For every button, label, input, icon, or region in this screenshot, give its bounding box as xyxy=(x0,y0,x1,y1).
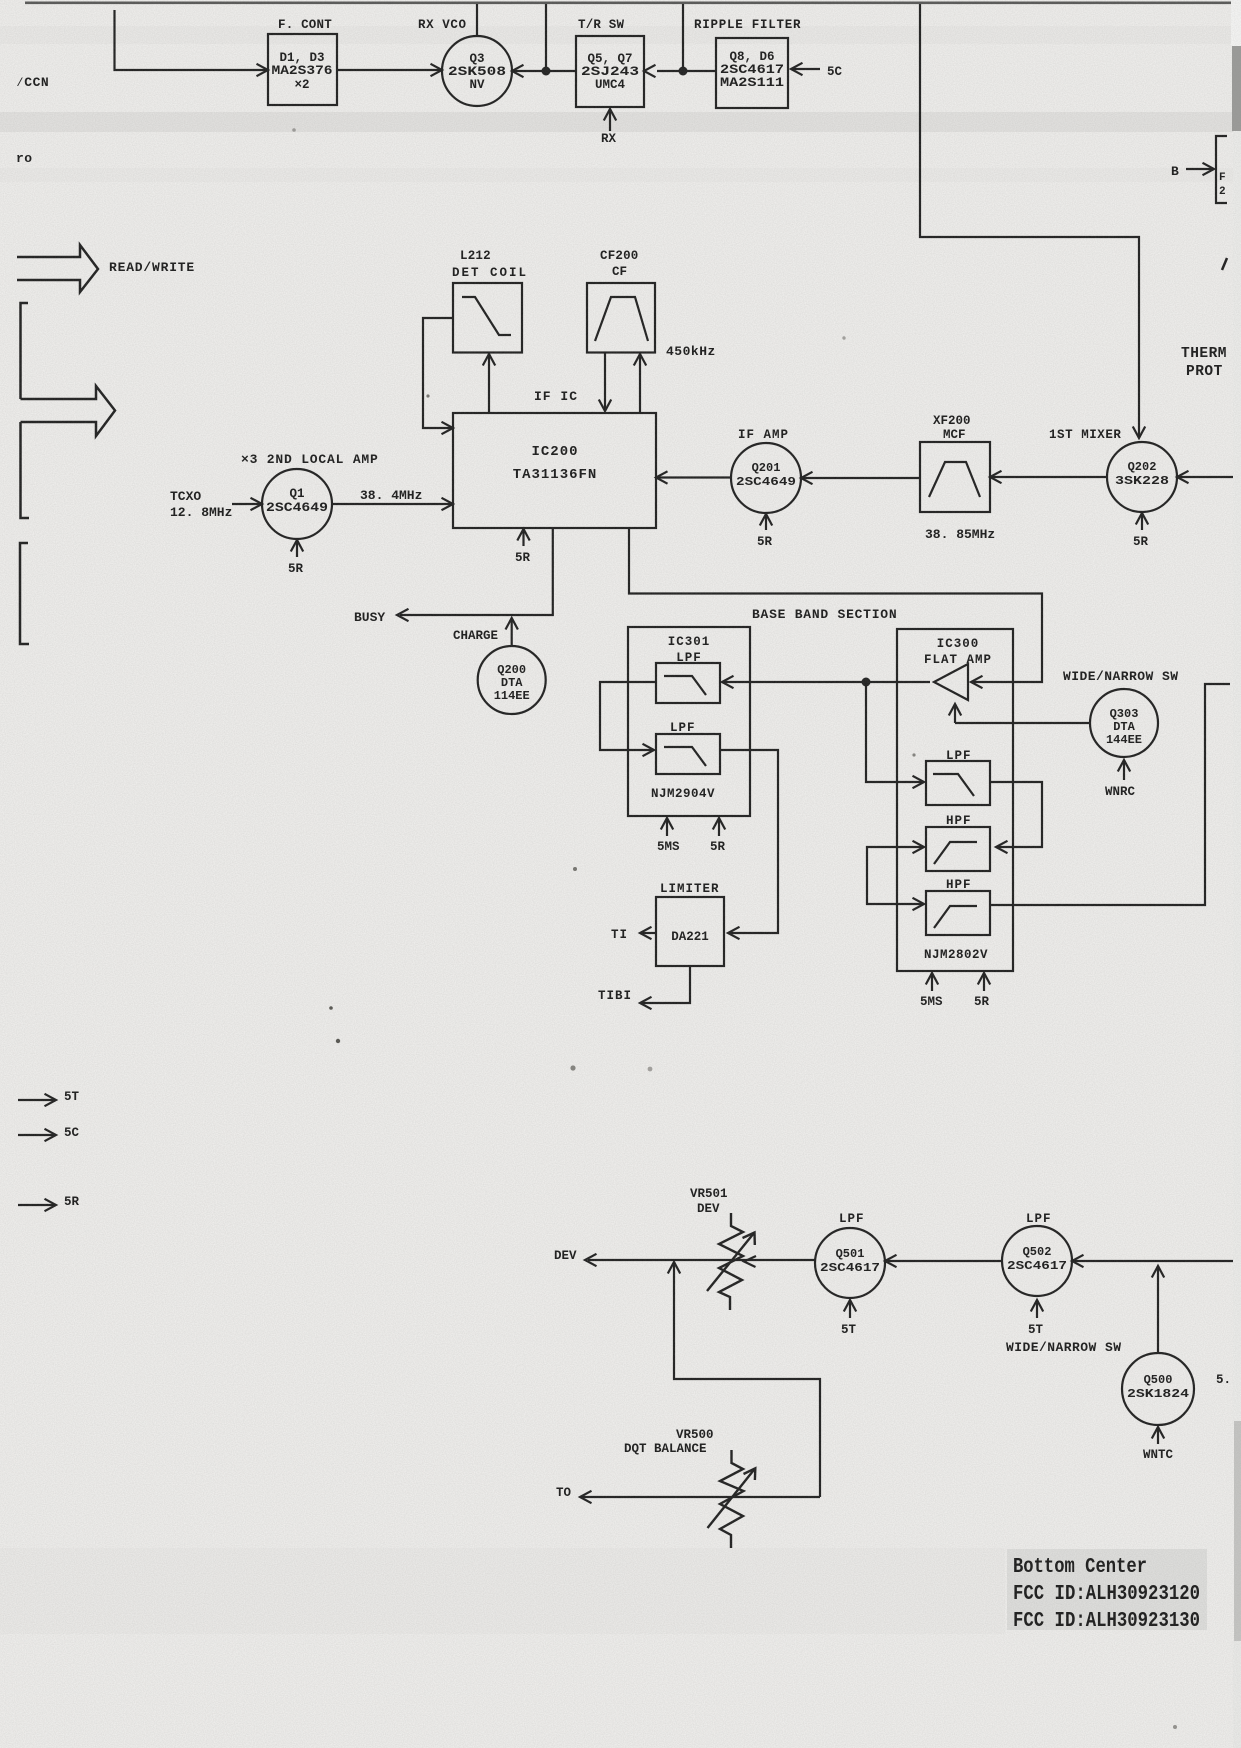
supply arrow 5T into Q501 xyxy=(849,1300,851,1318)
filter Q502 2SC4617 xyxy=(1002,1226,1072,1296)
label VR500 DQT BALANCE xyxy=(624,1428,714,1456)
mixer Q202 3SK228 xyxy=(1107,442,1177,512)
IF IC IC200 TA31136FN xyxy=(453,413,656,528)
wire from page edge into Q202 with arrow xyxy=(1177,476,1233,478)
supply arrow 5R into Q201 xyxy=(765,515,767,530)
supply arrow 5R xyxy=(18,1204,55,1206)
switch Q500 2SK1824 xyxy=(1122,1353,1194,1425)
wire 5C into ripple filter with arrow xyxy=(791,68,820,70)
switch block Q5,Q7 2SJ243 UMC4 (T/R SW) xyxy=(576,36,644,107)
wire junction down into IC300 LPF with arrow xyxy=(866,682,924,782)
op-amp triangle (flat amp) xyxy=(934,664,968,700)
supply arrow 5MS into IC301 xyxy=(666,818,668,836)
wire LPF2 output to DA221 right input xyxy=(720,750,778,933)
crystal filter XF200 box with bandpass curve xyxy=(920,442,990,512)
filter LPF box 1 (IC301) xyxy=(656,663,720,703)
wire DA221 bottom to TIBI with arrow xyxy=(640,966,690,1003)
wire IC200 bottom right to baseband section xyxy=(629,528,1042,682)
arrow DEV xyxy=(585,1254,597,1266)
arrow CF200 bottom down into IC200 top xyxy=(604,353,606,412)
arrow Q200 up to busy line xyxy=(511,619,513,646)
arrow into flat amp input xyxy=(971,676,983,688)
transistor Q200 DTA114EE xyxy=(478,646,546,714)
wire L212 left to IC200 left input with arrow xyxy=(423,318,453,428)
wire XF200 to Q201 with arrow xyxy=(801,477,920,479)
supply arrow 5MS into IC300 xyxy=(931,973,933,991)
wire stub from top edge to junction xyxy=(682,4,684,71)
arrow Q500 up into line xyxy=(1157,1266,1159,1353)
op-amp block IC301 outer box xyxy=(628,627,750,816)
wire from top edge down, right, down to Q202 xyxy=(920,4,1139,438)
filter LPF box (IC300) xyxy=(926,761,990,805)
potentiometer VR500 xyxy=(708,1450,756,1548)
supply arrow 5T xyxy=(18,1099,55,1101)
transistor Q303 DTA144EE xyxy=(1090,689,1158,757)
stray cut glyph at page edge xyxy=(1222,258,1227,270)
filter Q501 2SC4617 xyxy=(815,1228,885,1298)
detector coil L212 box with S-curve xyxy=(453,283,522,353)
connector bracket segment xyxy=(20,543,29,644)
junction dot xyxy=(542,67,551,76)
top scan bar xyxy=(25,2,1231,5)
wire T/R SW to Q3 with arrow into Q3 right xyxy=(512,70,576,72)
limiter DA221 xyxy=(656,897,724,966)
junction dot xyxy=(679,67,688,76)
label THERMAL PROT (cut at page edge) xyxy=(1181,346,1227,380)
control arrow WNTC into Q500 xyxy=(1157,1428,1159,1444)
connector bracket segment xyxy=(21,422,30,518)
supply arrow 5R into IC200 bottom xyxy=(522,530,524,546)
wire Q502 to Q501 with arrow xyxy=(885,1260,1002,1262)
wire Q201 to IC200 with arrow xyxy=(656,476,731,478)
wire HPF2 output right and up to page edge xyxy=(990,684,1230,905)
label L212 DET COIL xyxy=(452,249,528,280)
amplifier Q1 2SC4649 (2nd local amp) xyxy=(262,469,332,539)
bus arrow READ/WRITE xyxy=(17,245,98,292)
node arrow into F.CONT box xyxy=(257,64,269,76)
wire from top edge into Q3 top xyxy=(476,4,478,36)
wire Q202 to XF200 with arrow xyxy=(990,476,1107,478)
wire LPF1 left loop to LPF2 input with arrow xyxy=(600,682,656,750)
net label TCXO 12.8MHz xyxy=(170,489,232,520)
ceramic filter CF200 box with bandpass curve xyxy=(587,283,655,353)
wire IC200 bottom to BUSY (left) xyxy=(400,528,553,615)
bus arrow (unlabelled) xyxy=(21,386,116,436)
amplifier Q201 2SC4649 (IF amp) xyxy=(731,443,801,513)
wire stub from top edge to junction xyxy=(545,4,547,71)
arrow from Q303 up into flat amp xyxy=(954,704,956,723)
wire LPF output right loop into HPF1 right with arrow xyxy=(990,782,1042,847)
supply arrow 5R into Q1 xyxy=(296,541,298,557)
wire F.CONT to Q3 with arrow xyxy=(337,69,442,71)
supply arrow 5C xyxy=(18,1134,55,1136)
wire Q303 to flat amp control xyxy=(955,722,1090,724)
supply arrow 5R into IC301 xyxy=(718,818,720,836)
FCC ID label box xyxy=(1007,1549,1207,1633)
diode block D1,D3 MA2S376 x2 (F.CONT) xyxy=(268,34,337,105)
arrow up into DEV line xyxy=(668,1262,680,1274)
control arrow WNRC into Q303 xyxy=(1123,760,1125,780)
arrow into VR501 wiper xyxy=(744,1256,756,1267)
wire branch down from DEV line to DQT line xyxy=(674,1262,820,1497)
filter block Q8,D6 2SC4617 MA2S111 (RIPPLE FILTER) xyxy=(716,38,788,108)
supply arrow 5T into Q502 xyxy=(1036,1300,1038,1318)
wire VCCN input: down from top edge then right into D1,D3 xyxy=(115,10,268,70)
junction dot xyxy=(862,678,871,687)
connector bracket segment xyxy=(21,303,29,399)
wire Q1 to IC200 with arrow, 38.4MHz xyxy=(332,503,453,505)
wire DQT line to TO with arrow xyxy=(580,1496,820,1498)
wire TCXO into Q1 with arrow xyxy=(232,503,262,505)
wire DA221 to TI with arrow xyxy=(640,932,656,934)
wire RIPPLE FILTER to T/R SW with arrow xyxy=(657,70,716,72)
arrow IC200 top up into CF200 bottom xyxy=(639,354,641,413)
filter HPF box 2 (IC300) xyxy=(926,891,990,935)
wire main DEV line xyxy=(588,1259,815,1261)
wire from page edge to Q502 with arrow xyxy=(1072,1260,1233,1262)
supply arrow 5R into Q202 xyxy=(1141,514,1143,530)
label XF200 MCF xyxy=(933,414,971,442)
wire flat amp output to LPF1 with arrow xyxy=(722,681,930,683)
oscillator Q3 2SK508 NV (RX VCO) xyxy=(442,36,512,106)
wire bracket feeding HPF1 and HPF2 with arrows xyxy=(867,847,924,904)
arrow BUSY xyxy=(397,609,409,621)
control arrow RX into T/R SW bottom xyxy=(609,109,611,131)
filter LPF box 2 (IC301) xyxy=(656,734,720,774)
supply arrow 5R into IC300 xyxy=(983,973,985,991)
filter HPF box 1 (IC300) xyxy=(926,827,990,871)
connector bracket at right page edge xyxy=(1216,136,1227,203)
label CF200 CF xyxy=(600,249,639,279)
arrow IC200 top to L212 bottom xyxy=(488,354,490,413)
potentiometer VR501 xyxy=(707,1213,755,1310)
arrow into Q202 top xyxy=(1133,427,1145,439)
op-amp block IC300 outer box xyxy=(897,629,1013,971)
label VR501 DEV xyxy=(690,1187,728,1216)
